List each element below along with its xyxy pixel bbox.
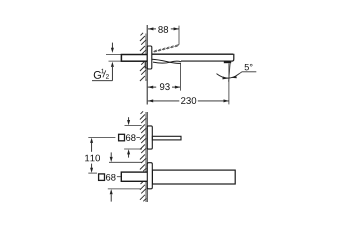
dim sq68 top: extension lines xyxy=(125,124,142,126)
dim sq68 bottom: extension top xyxy=(109,161,142,163)
5 deg tilted line xyxy=(229,63,231,82)
dim 110: vertical line with arrows xyxy=(90,138,93,173)
93 right extension line xyxy=(179,64,181,91)
hook from zigzag to 88 extension xyxy=(178,26,179,46)
label G 1/2 xyxy=(92,69,112,81)
5 deg leader xyxy=(236,72,256,76)
spout right end xyxy=(232,54,234,61)
wall inner boundary line (upper view) xyxy=(145,34,147,82)
wall face line (upper view) xyxy=(146,25,148,105)
label sq68 bottom xyxy=(99,174,121,181)
dim sq68 top: arrow down xyxy=(127,117,130,125)
bottom escutcheon (plan) xyxy=(147,163,152,189)
wall face line (lower view) xyxy=(146,112,148,202)
concealed body through wall xyxy=(121,172,152,181)
supply pipe extension line bottom xyxy=(109,60,148,62)
flange / escutcheon (upper view) xyxy=(147,46,152,69)
spout top edge xyxy=(152,53,233,55)
G1/2 dimension arrow up xyxy=(111,62,114,81)
wall (hatched band, lower view) xyxy=(140,111,146,201)
wall inner boundary line (lower view) xyxy=(145,112,147,202)
230 right extension line / 5 deg vertical reference xyxy=(228,63,230,104)
dim 110: extension lines xyxy=(88,137,115,139)
spout bar (plan view) xyxy=(152,170,235,184)
aerator at spout tip xyxy=(224,61,231,63)
handle lever (plan) xyxy=(152,136,181,140)
5 deg arc arrow right xyxy=(231,76,237,79)
label 5 deg xyxy=(245,64,253,71)
label sq68 top xyxy=(119,134,140,141)
dimension 93 xyxy=(148,86,181,89)
5 deg angle arc xyxy=(217,74,240,79)
dim sq68 bottom: extension bottom xyxy=(108,188,141,190)
spout bottom edge (outer part) xyxy=(181,60,233,62)
break zigzag above spout root xyxy=(154,45,178,52)
break squiggle under spout root (braid) xyxy=(152,59,181,63)
top escutcheon (plan) xyxy=(147,126,152,149)
5 deg arc arrow left xyxy=(222,77,228,80)
union step below pipe xyxy=(145,62,147,68)
label 110 xyxy=(85,155,100,162)
dimension 88 xyxy=(148,27,179,30)
dim sq68 top: arrow up xyxy=(127,149,130,157)
wall (hatched band, upper view) xyxy=(140,33,146,81)
G1/2 dimension arrow down xyxy=(111,43,114,53)
supply nipple G1/2 xyxy=(121,55,147,62)
dim sq68 bottom: arrow up xyxy=(110,189,113,202)
spout bar over flange joint xyxy=(152,171,154,184)
dim sq68 bottom: arrow down xyxy=(110,152,113,162)
dimension 230 xyxy=(148,99,229,102)
supply pipe extension line top xyxy=(106,54,147,56)
